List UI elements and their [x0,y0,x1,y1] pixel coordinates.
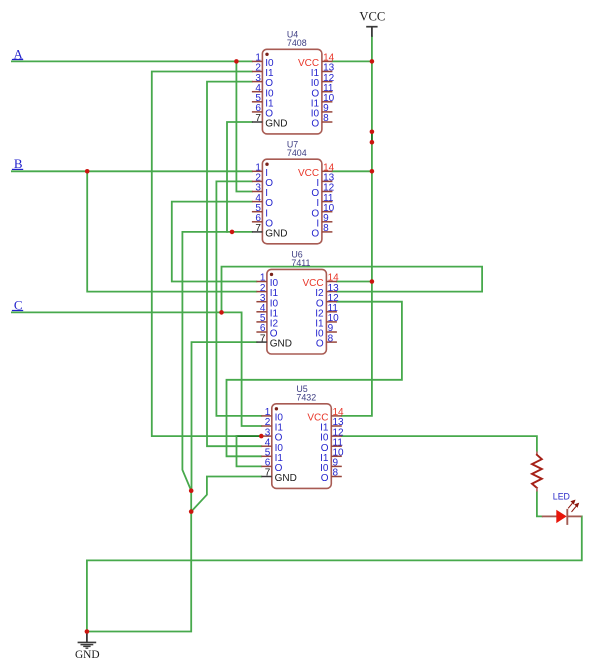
svg-text:8: 8 [323,113,329,124]
svg-text:8: 8 [333,468,339,479]
U5 pin 2 (I1) [261,417,283,433]
svg-text:7411: 7411 [291,258,310,268]
U6 pin 12 (O) [316,293,339,309]
svg-text:7404: 7404 [287,148,307,158]
LED light emission arrows [568,500,578,512]
U4 pin 7 (GND) [252,113,288,129]
svg-text:O: O [311,229,319,240]
wire VCC net: spur to U4 pin 14 [332,60,372,62]
U5 pin-1 indicator dot [275,407,278,410]
svg-text:8: 8 [328,333,334,344]
wire VCC net: spur to U6 pin 14 [337,281,372,283]
U4 pin 13 (I1) [311,63,335,79]
U4 pin-1 indicator dot [265,53,268,56]
U5 pin 1 (I0) [261,407,283,423]
svg-text:GND: GND [265,229,287,240]
U6 pin-1 indicator dot [270,273,273,276]
U5 pin 14 (VCC) [307,407,344,423]
junction net C branch [219,310,224,315]
svg-text:7: 7 [265,468,271,479]
U5 pin 7 (GND) [261,468,297,484]
svg-text:O: O [321,473,329,484]
U4 pin 5 (I1) [252,93,274,109]
input port label C [12,297,23,312]
U6 pin 2 (I1) [256,283,278,299]
junction GND at U7 pin 7 [230,230,235,235]
svg-text:VCC: VCC [359,10,385,24]
junction VCC rail upper [370,130,375,135]
U4 pin 12 (I0) [311,73,335,89]
junction VCC at U6 pin 14 [370,279,375,284]
wire net U4.2-U5.3: overlap segment to branch [237,435,262,437]
U6 pin 13 (I2) [315,283,339,299]
U6 pin 10 (I1) [315,313,339,329]
U5 pin 11 (O) [321,437,344,453]
wire GND net: ground up and right to LED cathode [87,516,582,631]
U4 pin 2 (I1) [252,63,274,79]
junction VCC at U4 pin 14 [370,59,375,64]
U7 pin 12 (O) [311,183,334,199]
U5 pin 10 (I1) [320,448,344,464]
U6 pin 7 (GND) [256,333,292,349]
svg-text:8: 8 [323,223,329,234]
U6 pin 5 (I2) [256,313,278,329]
U6 pin 6 (O) [256,323,277,339]
U7 pin 13 (I) [316,173,334,189]
VCC power symbol [359,10,385,37]
junction VCC at U7 pin 14 [370,169,375,174]
wire VCC net: vertical rail to U5 pin 14 [342,37,372,416]
IC U5 7432 [261,384,344,488]
junction GND upper [189,488,194,493]
U7 pin 9 (I) [316,213,332,229]
svg-text:7432: 7432 [296,393,316,403]
U7 pin 7 (GND) [252,223,288,239]
junction net B branch [85,169,90,174]
svg-text:7408: 7408 [287,38,307,48]
U6 pin 1 (I0) [256,273,278,289]
U7 pin 14 (VCC) [298,163,335,179]
junction net U4.2-U5.3 at U5 pin 3 [259,434,264,439]
wire net C: input C across, down to U5 pin 2 [12,312,261,426]
U6 pin 8 (O) [316,333,337,349]
U4 pin 14 (VCC) [298,53,335,69]
U5 pin 8 (O) [321,468,342,484]
U7 pin 11 (I) [316,193,334,209]
svg-text:GND: GND [75,649,100,661]
input port label B [12,156,23,171]
wire GND net: U5 pin 7 left and down with bend [191,477,261,512]
wire VCC net: overlapped segment between junctions [371,132,373,142]
wire net C: branch up and over U6 to pin 13 [222,267,483,313]
junction GND at ground symbol [85,629,90,634]
IC U6 7411 [256,250,339,354]
U7 pin 10 (O) [311,203,334,219]
U5 pin 13 (I1) [320,417,344,433]
svg-text:7: 7 [255,223,261,234]
U7 pin 1 (I) [252,163,268,179]
LED cathode bar [566,509,568,525]
U4 pin 3 (O) [252,73,273,89]
wire net U4.3-U5.4: U4 pin 3 down to U5 pin 4 [207,82,261,447]
U7 pin 4 (O) [252,193,273,209]
U7 pin-1 indicator dot [265,163,268,166]
wire VCC net: spur to U7 pin 14 [332,170,372,172]
wire output net: resistor bottom to LED anode [537,491,542,516]
U7 pin 8 (O) [311,223,332,239]
wire GND net: junction to junction [190,491,192,512]
U5 pin 5 (I1) [261,448,283,464]
wire net U7.2-U5.1: U7 pin 2 down to U5 pin 1 [216,181,261,416]
svg-text:GND: GND [265,119,287,130]
LED D1 with label and light arrows [542,491,582,525]
wire net B: branch down to U6 pin 2 [87,171,256,291]
U7 pin 3 (I) [252,183,268,199]
U4 pin 6 (O) [252,103,273,119]
svg-text:GND: GND [270,339,292,350]
U6 pin 11 (I2) [315,303,338,319]
wire GND net: U6 pin 7 left and down [192,342,257,491]
svg-text:7: 7 [255,113,261,124]
U4 pin 8 (O) [311,113,332,129]
wire net U4.2-U5.3: U4 pin 2 down to U5 pin 3 [152,72,261,437]
wire net U7.4-U6.1: U7 pin 4 down to U6 pin 1 [172,202,257,282]
wire net A: branch down to U7 pin 3 [236,61,252,191]
U7 pin 5 (I) [252,203,268,219]
resistor (current limiting, vertical zigzag) [532,452,542,492]
wire GND net: U7 pin 7 left and down with bend [182,232,252,491]
svg-text:7: 7 [260,333,266,344]
wire net A: input A to U4 pin 1 [12,60,252,62]
svg-text:LED: LED [553,491,570,501]
U4 pin 11 (O) [311,83,334,99]
wire output net: U5 pin 12 to resistor top [342,436,537,452]
wire net B: input B to U7 pin 1 [12,170,252,172]
U6 pin 4 (I1) [256,303,278,319]
U6 pin 14 (VCC) [302,273,339,289]
svg-text:O: O [311,119,319,130]
wire GND net: down to bottom rail and left to ground [87,512,191,632]
svg-text:GND: GND [275,473,297,484]
wire GND net: U4 pin 7 down [227,122,252,232]
U4 pin 4 (I0) [252,83,274,99]
U5 pin 4 (I0) [261,437,283,453]
junction net A at U4 pin 1 branch [234,59,239,64]
input port label A [12,46,24,61]
junction GND lower [189,509,194,514]
U5 pin 12 (I0) [320,427,344,443]
GND ground symbol [75,632,100,661]
U7 pin 6 (O) [252,213,273,229]
U5 pin 3 (O) [261,427,282,443]
junction VCC rail lower [370,140,375,145]
U5 pin 6 (O) [261,458,282,474]
IC U4 7408 [252,30,335,134]
LED anode triangle [556,510,566,523]
U6 pin 3 (I0) [256,293,278,309]
svg-text:O: O [316,339,324,350]
U4 pin 1 (I0) [252,53,274,69]
wire net U6.12-U5.5: U6 pin 12 around to U5 pin 5 [227,302,402,457]
wire net U4.2-U5.3: branch down to U5 pin 6 [237,436,262,466]
U6 pin 9 (I0) [315,323,337,339]
U7 pin 2 (O) [252,173,273,189]
U5 pin 9 (I0) [320,458,342,474]
IC U7 7404 [252,139,335,243]
U4 pin 10 (I1) [311,93,335,109]
U4 pin 9 (I0) [311,103,333,119]
